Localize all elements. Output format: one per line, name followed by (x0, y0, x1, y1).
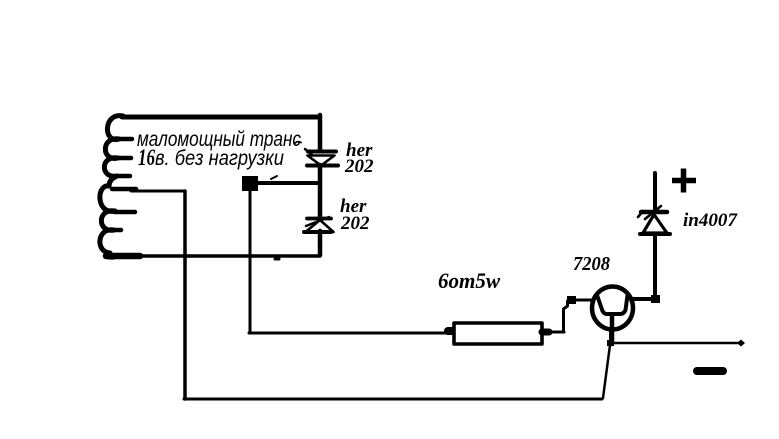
svg-text:в. без нагрузки: в. без нагрузки (155, 147, 284, 170)
transistor Q1 (592, 287, 633, 345)
resistor R1 body (448, 323, 549, 344)
node B (collector junction square) (651, 295, 660, 303)
diode D3 in4007 (pointing up) (638, 206, 670, 234)
svg-text:6om5w: 6om5w (438, 268, 500, 293)
transformer T1 winding coil (100, 116, 136, 258)
svg-text:202: 202 (340, 213, 370, 234)
diode D1 her202 (pointing down) (305, 149, 338, 166)
label: маломощный транс / 16в. без нагрузки (137, 128, 301, 170)
node A (solder square) (242, 176, 258, 191)
svg-text:202: 202 (344, 156, 374, 177)
wire: resistor to transistor base (549, 296, 593, 332)
wire: emitter slant to bottom return (603, 345, 610, 398)
wire: right vertical, D1 to D2 (318, 165, 323, 219)
node: emitter junction (607, 340, 614, 346)
wire: transformer mid tap (131, 190, 185, 193)
wire: right vertical, D2 to bottom (318, 231, 323, 255)
wire: emitter down (609, 329, 613, 344)
stray mark near text end (295, 142, 301, 143)
wire: plus terminal down to diode D3 (653, 173, 657, 209)
wire: transformer bottom to diode branch (106, 253, 320, 260)
wire: node down to resistor (249, 191, 448, 333)
wire: transformer top to diode branch (122, 115, 319, 120)
wire: diode D3 to collector junction (653, 234, 657, 297)
wire: collector to diode junction (633, 297, 652, 301)
wire: bottom return run (184, 398, 602, 401)
svg-text:7208: 7208 (573, 253, 610, 275)
minus terminal (697, 367, 723, 375)
wire: emitter to minus terminal (611, 340, 745, 347)
label her 202 (D1) (344, 140, 374, 177)
stray tick mark (271, 176, 277, 179)
svg-text:in4007: in4007 (683, 210, 738, 231)
diode D2 her202 (pointing up) (304, 217, 334, 232)
stray dot below bottom wire (275, 258, 279, 261)
wire: right vertical, top segment (318, 115, 323, 151)
svg-text:16: 16 (138, 145, 155, 170)
label her 202 (D2) (340, 196, 370, 234)
wire: mid tap vertical down (183, 191, 187, 399)
plus terminal (672, 169, 696, 193)
node: junction wire from node square to diode branch (258, 181, 319, 185)
